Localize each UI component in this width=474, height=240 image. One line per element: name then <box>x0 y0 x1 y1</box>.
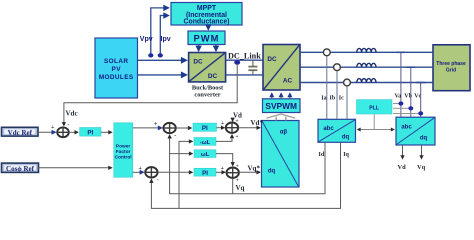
svg-text:DC_Link: DC_Link <box>228 52 261 61</box>
PLL input wire Va <box>393 103 398 105</box>
Vdc feedback wire <box>64 64 237 126</box>
J1 plus sign <box>154 122 158 128</box>
PI block (Vdc loop) <box>80 128 101 137</box>
Ipv label <box>161 36 171 43</box>
wire Cos phi Ref to PFC <box>38 167 112 169</box>
summing junction J3 (Vd) <box>226 123 238 133</box>
wire wL to J4 top <box>216 154 233 166</box>
svg-text:PI: PI <box>87 130 93 137</box>
J0 minus sign <box>68 123 70 129</box>
J3 plus sign bottom <box>236 134 239 140</box>
svg-text:αβ: αβ <box>280 130 288 136</box>
Vb tap wire <box>406 67 415 117</box>
wire J0 to PI <box>69 131 78 133</box>
Id feedback wire from abc-dq to J1 <box>170 135 325 194</box>
J0 plus sign <box>51 125 55 131</box>
wire PI to PFC <box>101 131 112 133</box>
alpha beta block arrow to SVPWM <box>267 114 296 121</box>
Vpv tap wire <box>151 8 169 57</box>
CT sensor on phase c <box>344 79 351 119</box>
svg-text:converter: converter <box>194 92 220 99</box>
J4 plus sign bottom <box>236 178 239 184</box>
svg-text:+: + <box>236 178 239 184</box>
PLL block <box>357 100 393 114</box>
svg-text:PWM: PWM <box>194 33 220 44</box>
PLL input wire Vb <box>393 107 408 109</box>
DC link bottom rail <box>226 74 263 76</box>
svg-text:+: + <box>236 134 239 140</box>
svg-text:MODULES: MODULES <box>99 74 134 81</box>
svg-text:+: + <box>236 119 239 125</box>
PI block (q current loop) <box>194 168 216 177</box>
J1 minus sign <box>174 133 176 139</box>
svg-text:PI: PI <box>202 125 208 132</box>
svg-text:SVPWM: SVPWM <box>265 101 297 111</box>
Cos phi Ref input box <box>2 163 39 173</box>
CT sensor on phase b <box>334 64 341 120</box>
svg-text:Ipv: Ipv <box>161 36 171 43</box>
svg-text:Three phase: Three phase <box>436 61 466 67</box>
PLL input wire Vc <box>393 112 418 114</box>
svg-text:dq: dq <box>420 136 428 142</box>
svg-text:Vdc Ref: Vdc Ref <box>8 129 33 137</box>
-wL block <box>194 138 216 147</box>
Vq* label <box>248 165 261 173</box>
wire PI2 to J4 <box>216 171 225 173</box>
svg-text:Vc: Vc <box>414 94 421 100</box>
inverter DC/AC block <box>263 45 300 91</box>
svg-text:Ib: Ib <box>330 96 336 102</box>
Vd output label <box>398 164 407 171</box>
svg-text:AC: AC <box>283 78 293 85</box>
svg-text:Id: Id <box>319 152 325 158</box>
svg-text:-ωL: -ωL <box>200 140 211 146</box>
svg-text:Ia: Ia <box>321 96 326 102</box>
svg-text:Vd: Vd <box>398 164 407 171</box>
svg-text:MPPT: MPPT <box>197 5 217 12</box>
J3 plus sign left <box>221 121 225 127</box>
J2 minus sign <box>157 178 159 184</box>
svg-text:Vq*: Vq* <box>248 165 261 173</box>
Iq branch wire to -wL <box>179 141 192 208</box>
phase line c <box>300 82 433 84</box>
Vq output label <box>417 164 426 171</box>
Vd feedforward arrow <box>232 118 234 121</box>
MPPT block <box>171 3 242 26</box>
wire J4 to dq-ab block (Vq*) <box>239 171 260 173</box>
svg-text:Conductance): Conductance) <box>184 19 230 26</box>
svg-text:Vd*: Vd* <box>251 119 264 127</box>
Va Vb Vc labels <box>395 94 422 100</box>
J4 plus sign left <box>221 166 225 172</box>
wire J1 to PI1 <box>176 127 192 129</box>
Iq label <box>343 152 349 158</box>
buck/boost caption <box>192 85 224 99</box>
wire Vdc Ref to J0 <box>37 131 56 133</box>
svg-text:Grid: Grid <box>446 68 456 74</box>
wire PI1 to J3 <box>217 127 225 129</box>
wire PV to converter top <box>138 59 187 61</box>
solar PV modules block <box>95 38 138 98</box>
Ia Ib Ic labels <box>321 96 344 102</box>
PWM block <box>188 31 225 45</box>
Vc node dot <box>418 111 423 115</box>
wire PWM to converter left gate <box>198 45 200 51</box>
svg-text:Vdc: Vdc <box>66 110 78 118</box>
DC link node dot <box>234 60 240 65</box>
PI block (d current loop) <box>193 123 217 132</box>
dq to alpha-beta block U3 <box>262 121 300 188</box>
wire -wL to J3 bottom <box>216 135 232 142</box>
phase line b <box>300 66 433 68</box>
SVPWM gate wire 1 <box>271 93 273 99</box>
Id branch wire to wL <box>170 153 193 155</box>
wire PWM to converter right gate <box>215 45 217 51</box>
svg-text:DC: DC <box>267 56 277 63</box>
svg-text:Buck/Boost: Buck/Boost <box>192 85 224 92</box>
Vd output arrow of voltage abc-dq <box>402 145 404 159</box>
Ipv tap wire <box>160 16 168 58</box>
phase line a <box>300 51 433 53</box>
three phase grid block <box>433 45 470 91</box>
svg-text:ωL: ωL <box>201 152 210 158</box>
svg-text:Vq: Vq <box>236 184 245 192</box>
summing junction J1 (d axis) <box>163 123 175 133</box>
wire PFC to J1 <box>133 127 162 129</box>
svg-text:Factor: Factor <box>116 149 131 155</box>
svg-text:Iq: Iq <box>343 152 349 158</box>
J3 plus sign top <box>236 119 239 125</box>
J2 plus sign <box>139 166 143 172</box>
svg-text:abc: abc <box>401 125 412 131</box>
svg-text:+: + <box>221 121 225 127</box>
filter inductor Lc <box>357 79 376 83</box>
svg-text:PI: PI <box>202 170 208 177</box>
Vpv node dot <box>148 53 153 57</box>
svg-text:+: + <box>236 164 239 170</box>
svg-text:Vpv: Vpv <box>140 36 153 43</box>
svg-text:DC: DC <box>193 59 203 66</box>
Iq feedback wire from abc-dq to J2 <box>151 142 340 208</box>
svg-text:PLL: PLL <box>369 106 380 112</box>
CT sensor on phase a <box>323 49 330 119</box>
Vq label <box>236 184 245 192</box>
svg-text:+: + <box>139 166 143 172</box>
summing junction J4 (Vq) <box>227 168 239 178</box>
svg-text:-: - <box>157 178 159 184</box>
summing junction J0 (Vdc) <box>57 127 69 137</box>
Va node dot <box>398 101 403 105</box>
Vc tap wire <box>416 83 425 118</box>
SVPWM gate wire 3 <box>289 93 291 99</box>
Vdc label <box>66 110 78 118</box>
DC link capacitor C1 <box>248 60 257 75</box>
wL block <box>194 150 216 158</box>
Vb node dot <box>408 106 413 110</box>
Vq feedforward stub from J4 <box>232 179 234 194</box>
wire PFC to J2 <box>133 171 144 173</box>
filter inductor Lb <box>357 63 376 67</box>
svg-text:-: - <box>174 133 176 139</box>
svg-text:Control: Control <box>115 155 132 161</box>
svg-text:DC: DC <box>208 73 218 80</box>
svg-text:+: + <box>221 166 225 172</box>
summing junction J2 (q axis) <box>145 167 157 177</box>
svg-text:Va: Va <box>395 94 402 100</box>
Va tap wire <box>396 52 405 117</box>
svg-text:Vb: Vb <box>404 94 412 100</box>
Id label <box>319 152 325 158</box>
svg-text:Ic: Ic <box>339 96 344 102</box>
svg-text:abc: abc <box>323 126 334 132</box>
abc to dq block (voltages) <box>396 117 435 145</box>
wire J3 to dq-ab block (Vd*) <box>238 127 260 129</box>
SVPWM block <box>263 99 301 113</box>
wire PV to converter bottom <box>138 74 187 76</box>
SVPWM gate wire 2 <box>280 93 282 99</box>
wire MPPT to PWM <box>207 25 209 30</box>
svg-text:Cosϕ Ref: Cosϕ Ref <box>6 165 35 173</box>
Vpv label <box>140 36 153 43</box>
svg-text:+: + <box>154 122 158 128</box>
filter inductor La <box>357 48 376 52</box>
DC link label <box>228 52 261 61</box>
svg-text:Vq: Vq <box>417 164 426 171</box>
svg-text:PV: PV <box>112 66 122 73</box>
power factor control block <box>114 123 133 177</box>
svg-text:Power: Power <box>116 144 131 150</box>
abc to dq block (currents) <box>318 119 356 142</box>
Vdc Ref input box <box>2 127 39 137</box>
Vq output arrow of voltage abc-dq <box>421 145 423 159</box>
Ipv node dot <box>158 53 163 57</box>
Vd label <box>233 111 242 119</box>
DC link top rail <box>226 59 263 61</box>
J4 plus sign top <box>236 164 239 170</box>
wire J2 to PI2 <box>158 171 193 173</box>
svg-text:-: - <box>68 123 70 129</box>
svg-text:SOLAR: SOLAR <box>104 58 128 65</box>
Vd* label <box>251 119 264 127</box>
svg-text:dq: dq <box>268 169 276 175</box>
PLL theta wire to both abc-dq blocks <box>358 114 395 130</box>
svg-text:dq: dq <box>342 135 350 141</box>
svg-text:+: + <box>51 125 55 131</box>
buck/boost converter block <box>189 53 226 82</box>
